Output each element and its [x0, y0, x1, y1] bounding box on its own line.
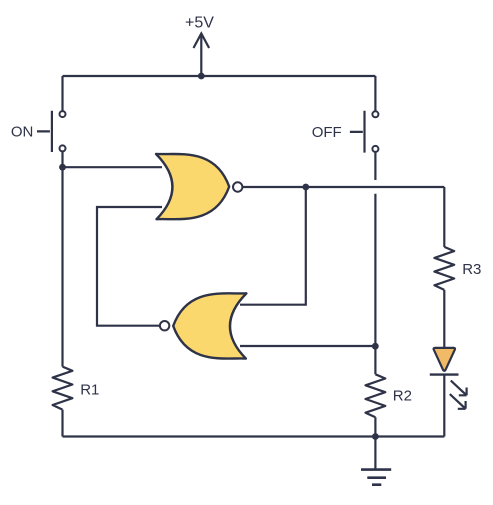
- svg-text:R3: R3: [462, 261, 481, 278]
- svg-text:R2: R2: [393, 388, 412, 405]
- svg-text:R1: R1: [80, 381, 99, 398]
- svg-text:OFF: OFF: [312, 124, 342, 141]
- svg-text:ON: ON: [11, 124, 34, 141]
- svg-text:+5V: +5V: [185, 15, 214, 32]
